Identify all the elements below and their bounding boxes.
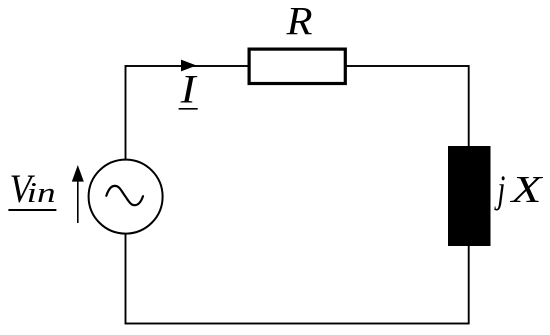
svg-text:I: I [180,67,198,112]
svg-text:X: X [509,169,544,211]
svg-text:in: in [27,177,56,209]
svg-text:j: j [494,168,506,211]
svg-text:R: R [285,0,312,44]
